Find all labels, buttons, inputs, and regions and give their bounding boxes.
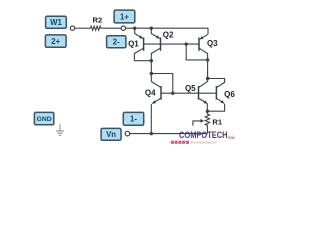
wire top supply rail (126, 28, 209, 34)
transistor Q6 (NPN, mirrored) (207, 79, 224, 112)
svg-text:W1: W1 (50, 18, 62, 27)
junction dot Q3 collector node (206, 58, 209, 61)
node Vn (open terminal circle) (125, 131, 130, 136)
resistor R2 (90, 26, 101, 30)
transistor Q4 (NPN) (151, 82, 161, 134)
connector GND terminal (34, 112, 53, 124)
svg-text:COMPOTECH: COMPOTECH (179, 130, 228, 141)
svg-text:Q2: Q2 (163, 30, 174, 39)
transistor Q2 (PNP) (151, 28, 160, 81)
node W1 (open terminal circle) (70, 26, 74, 30)
junction dot Q2 emitter (150, 27, 153, 30)
wire R2 to 1+ node (101, 27, 121, 29)
wire bottom Vn rail (130, 133, 208, 135)
connector W1 terminal (46, 16, 67, 28)
connector 1+ terminal (114, 10, 135, 23)
svg-text:2-: 2- (113, 38, 120, 47)
junction dot base bus (185, 42, 188, 45)
svg-text:Q4: Q4 (145, 89, 156, 98)
svg-text:Vn: Vn (106, 130, 116, 139)
wire W1 node to R2 (75, 27, 91, 29)
svg-text:Q3: Q3 (207, 39, 218, 48)
watermark COMPOTECH (171, 130, 235, 144)
svg-text:R1: R1 (212, 117, 222, 126)
connector Vn terminal (101, 128, 121, 140)
potentiometer wiper arrow at R1 (193, 119, 204, 126)
connector 2+ terminal (45, 35, 66, 47)
svg-text:1-: 1- (130, 115, 137, 124)
junction dot collectors Q1/Q2 (150, 59, 153, 62)
svg-text:Q6: Q6 (224, 90, 235, 99)
connector 1- terminal (123, 112, 143, 125)
wire branch to lower base bus (151, 74, 173, 94)
connector 2- terminal (107, 36, 126, 48)
svg-text:Asia: Asia (228, 135, 235, 140)
transistor Q1 (PNP) (134, 28, 143, 61)
wire Q3 collector node to output node (207, 60, 209, 79)
junction dot Q1 emitter (133, 27, 136, 30)
svg-text:GND: GND (37, 116, 52, 123)
wire base bus drop to Q3 collector node (186, 44, 207, 60)
svg-text:Q1: Q1 (128, 40, 139, 49)
junction dot emitters node (R1 top) (206, 110, 209, 113)
wire base bus Q1-Q2-Q3 (144, 43, 199, 45)
svg-text:www.compotechasia.com: www.compotechasia.com (191, 141, 217, 145)
wire Q1 collector to Q2 collector (134, 60, 151, 62)
resistor R1 (205, 111, 209, 133)
svg-text:2+: 2+ (51, 37, 60, 46)
junction dot output node (206, 77, 209, 80)
svg-text:1+: 1+ (120, 12, 129, 21)
junction dot branch to output bases (150, 72, 153, 75)
svg-text:R2: R2 (93, 16, 103, 25)
transistor Q5 (NPN, mirrored) (199, 79, 208, 112)
svg-text:Q5: Q5 (185, 84, 196, 93)
junction dot lower base bus (171, 92, 174, 95)
junction dot Q4 emitter on rail (150, 132, 153, 135)
wire base bus Q4-Q5-Q6 (161, 92, 216, 94)
node 1+ (open terminal circle) (121, 26, 125, 30)
ground symbol (56, 124, 64, 135)
transistor Q3 (PNP, mirrored) (199, 34, 208, 60)
